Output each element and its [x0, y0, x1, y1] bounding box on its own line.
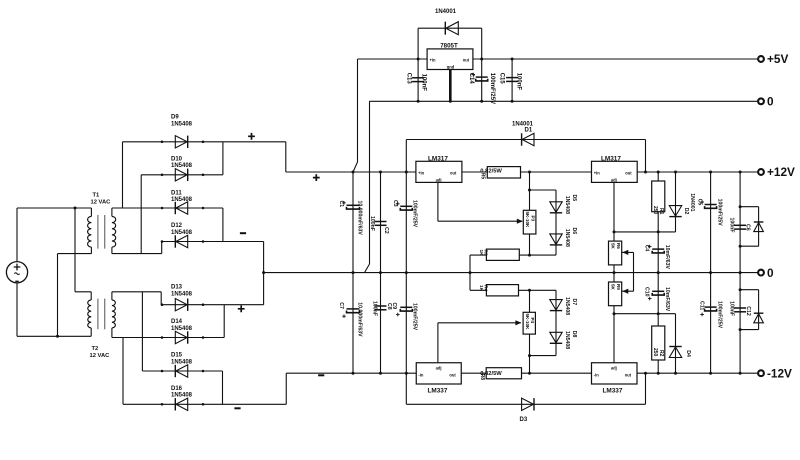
svg-text:250: 250	[652, 206, 658, 215]
svg-text:1N5408: 1N5408	[564, 331, 570, 349]
svg-text:D4: D4	[685, 350, 691, 357]
svg-text:C15: C15	[499, 73, 505, 85]
svg-text:-In: -In	[594, 372, 600, 377]
svg-text:1N5408: 1N5408	[171, 197, 193, 203]
svg-text:1N4001: 1N4001	[689, 193, 695, 211]
svg-text:0: 0	[767, 95, 774, 109]
svg-text:C13: C13	[406, 73, 412, 85]
svg-text:LM317: LM317	[601, 155, 621, 162]
svg-text:1N5408: 1N5408	[171, 292, 193, 298]
svg-text:0: 0	[767, 266, 774, 280]
svg-text:100mF/25V: 100mF/25V	[412, 200, 418, 228]
svg-text:+12V: +12V	[767, 165, 795, 179]
svg-text:LM337: LM337	[603, 388, 623, 395]
svg-text:out: out	[625, 171, 632, 176]
svg-text:R2: R2	[658, 350, 664, 357]
svg-text:100mF/25V: 100mF/25V	[489, 73, 495, 104]
svg-text:R4: R4	[483, 285, 489, 291]
svg-text:adj: adj	[436, 178, 442, 183]
svg-text:100mF/25V: 100mF/25V	[717, 301, 723, 329]
svg-text:R9: R9	[616, 284, 621, 290]
svg-text:10 000mF/63V: 10 000mF/63V	[357, 302, 363, 337]
svg-text:C2: C2	[383, 227, 389, 234]
svg-text:250: 250	[652, 348, 658, 357]
svg-text:D2: D2	[683, 208, 689, 215]
svg-text:C7: C7	[338, 302, 344, 309]
svg-text:D11: D11	[171, 191, 182, 197]
svg-text:C11: C11	[699, 301, 705, 310]
svg-text:D9: D9	[171, 114, 179, 120]
svg-text:C14: C14	[468, 73, 474, 85]
svg-text:D3: D3	[520, 417, 528, 423]
svg-text:5K: 5K	[611, 243, 616, 250]
svg-text:1N5408: 1N5408	[171, 230, 193, 236]
svg-text:12 VAC: 12 VAC	[90, 353, 111, 359]
svg-text:D1: D1	[525, 128, 533, 134]
svg-text:0.82/5W: 0.82/5W	[480, 371, 502, 377]
svg-text:12 VAC: 12 VAC	[91, 200, 112, 206]
svg-text:100nF: 100nF	[372, 301, 378, 316]
svg-text:P3: P3	[530, 216, 535, 222]
svg-text:D7: D7	[571, 299, 577, 306]
svg-text:C3: C3	[392, 200, 398, 207]
svg-text:100mF/25V: 100mF/25V	[412, 303, 418, 331]
svg-text:D16: D16	[171, 386, 183, 392]
svg-text:adj: adj	[436, 365, 442, 370]
svg-text:5K-10K: 5K-10K	[525, 212, 530, 229]
svg-text:out: out	[449, 373, 456, 378]
svg-text:D10: D10	[171, 156, 183, 162]
svg-text:C6: C6	[745, 224, 751, 231]
svg-text:5K-10K: 5K-10K	[525, 314, 530, 331]
svg-text:1N5408: 1N5408	[564, 196, 570, 214]
svg-text:C9: C9	[391, 303, 397, 310]
svg-text:R1: R1	[658, 208, 664, 215]
svg-text:D15: D15	[171, 353, 183, 359]
svg-text:-In: -In	[418, 372, 424, 377]
svg-text:1N5408: 1N5408	[171, 359, 193, 365]
svg-text:R6: R6	[616, 243, 621, 249]
svg-text:+5V: +5V	[767, 52, 788, 66]
svg-text:D14: D14	[171, 319, 183, 325]
svg-text:C4: C4	[643, 245, 649, 252]
svg-text:-12V: -12V	[767, 366, 792, 380]
svg-text:C10: C10	[643, 287, 649, 297]
svg-text:D8: D8	[571, 331, 577, 338]
svg-text:C12: C12	[745, 306, 751, 316]
svg-text:out: out	[463, 58, 470, 63]
svg-text:1N5408: 1N5408	[171, 122, 193, 128]
svg-text:D12: D12	[171, 223, 183, 229]
svg-text:C5: C5	[697, 199, 703, 206]
svg-text:100nF: 100nF	[369, 216, 375, 231]
svg-text:100nF: 100nF	[420, 74, 426, 92]
svg-text:5K: 5K	[611, 284, 616, 291]
svg-text:out: out	[450, 171, 457, 176]
svg-text:1N5408: 1N5408	[564, 229, 570, 247]
svg-text:1N5408: 1N5408	[171, 393, 193, 399]
svg-text:100nF: 100nF	[728, 301, 734, 316]
svg-text:10mF/63V: 10mF/63V	[664, 287, 670, 312]
svg-text:adj: adj	[611, 178, 617, 183]
svg-text:T1: T1	[93, 193, 101, 199]
svg-text:LM337: LM337	[428, 388, 448, 395]
svg-text:7805T: 7805T	[440, 42, 458, 49]
svg-text:T2: T2	[92, 346, 99, 352]
svg-text:P4: P4	[530, 318, 535, 324]
svg-text:adj: adj	[611, 365, 617, 370]
svg-text:out: out	[625, 373, 632, 378]
svg-text:D5: D5	[571, 195, 577, 202]
svg-text:D13: D13	[171, 285, 183, 291]
svg-text:1N4001: 1N4001	[435, 9, 457, 15]
svg-text:+In: +In	[418, 170, 425, 175]
svg-text:gnd: gnd	[447, 65, 455, 70]
svg-text:100nF: 100nF	[728, 218, 734, 233]
svg-text:100nF: 100nF	[515, 73, 521, 91]
svg-text:100mF/25V: 100mF/25V	[717, 199, 723, 227]
svg-text:LM317: LM317	[428, 155, 448, 162]
svg-text:1N5408: 1N5408	[171, 326, 193, 332]
svg-text:10 000mF/63V: 10 000mF/63V	[357, 201, 363, 236]
svg-text:1N5408: 1N5408	[564, 297, 570, 315]
svg-text:+In: +In	[594, 170, 601, 175]
svg-text:D6: D6	[571, 228, 577, 235]
svg-text:1N5408: 1N5408	[171, 163, 193, 169]
svg-text:0.82/5W: 0.82/5W	[480, 168, 502, 174]
svg-text:+In: +In	[430, 57, 437, 62]
svg-text:C1: C1	[338, 201, 344, 208]
svg-text:10mF/63V: 10mF/63V	[664, 245, 670, 270]
svg-text:R3: R3	[483, 250, 489, 256]
